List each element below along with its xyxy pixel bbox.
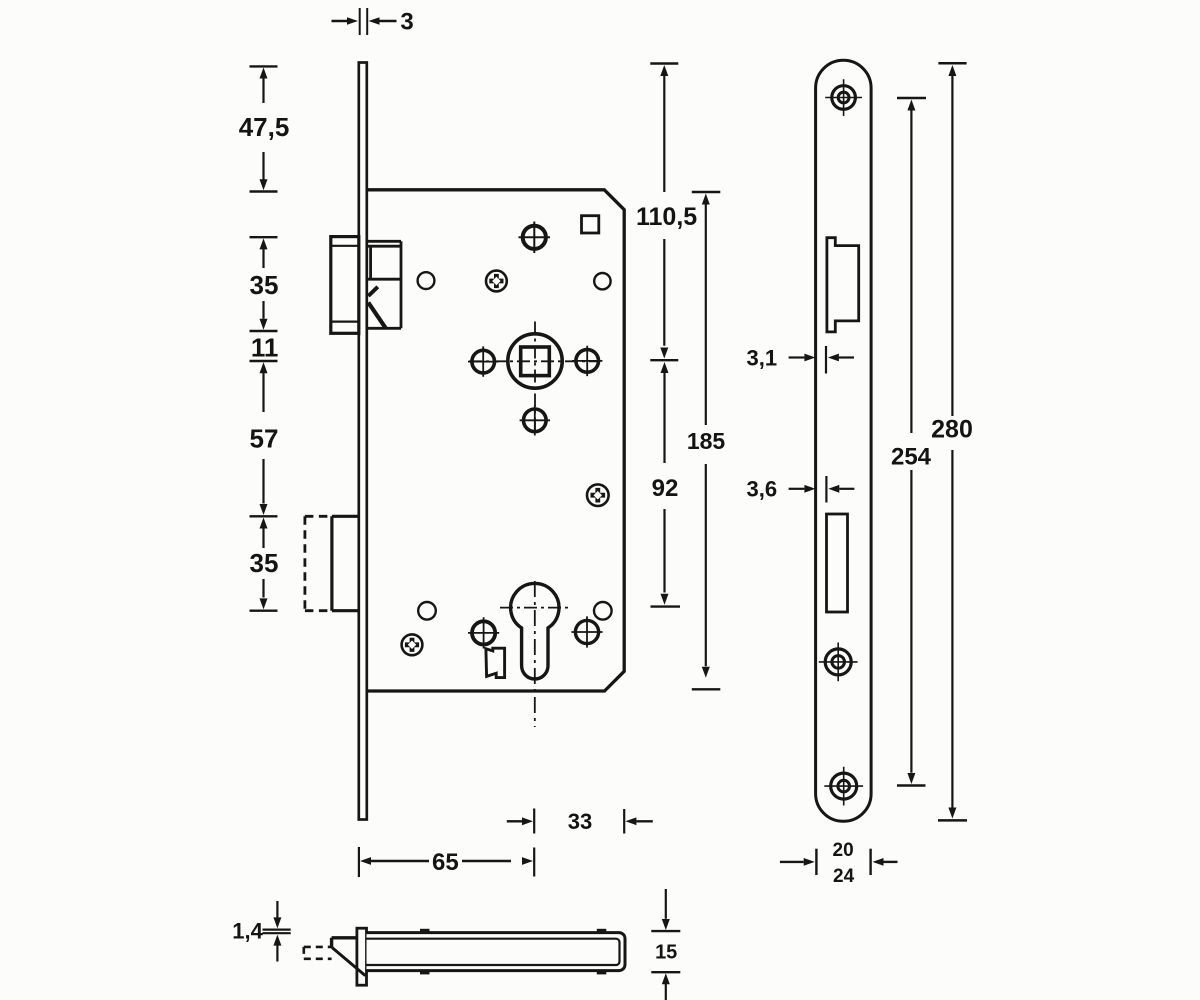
hole lower left [418,602,436,620]
svg-text:3,6: 3,6 [747,477,778,502]
square cutout top right [582,216,599,233]
svg-text:280: 280 [931,415,973,443]
dim 3 extension ticks [360,8,368,35]
deadbolt cutout on plate [827,514,848,612]
dim 47,5 [239,66,290,191]
spindle square hole [521,347,550,376]
euro cylinder profile [511,583,559,679]
top screw hole [519,222,551,254]
screw hole left of cylinder [468,617,499,648]
dim 65 [359,847,533,877]
svg-text:35: 35 [250,548,279,578]
latch housing in case [367,241,401,328]
dim 20/24 [780,840,898,887]
screw hole right of cylinder [571,616,602,647]
cylinder centerline vertical [534,581,536,727]
spindle centerline horizontal [469,360,599,362]
dim 3 left arrow [332,17,359,25]
phillips screw upper left [486,271,507,292]
spindle centerline vertical [534,322,536,434]
svg-text:3: 3 [400,9,413,36]
latch bevel diagonal (bottom view) [332,948,365,976]
screw hole right of spindle [572,346,602,376]
dim 3,1 [747,345,854,373]
case inner wall (bottom view) [367,939,620,965]
dim 35 upper [250,237,279,331]
dim 15 [651,889,680,1000]
plate middle screw [819,643,858,682]
lever flag below cylinder [486,648,505,677]
screw hole left of spindle [468,346,498,376]
svg-text:65: 65 [432,849,459,876]
hole lower right [594,602,612,620]
hole upper right [594,273,610,289]
phillips screw mid right [587,484,609,506]
svg-text:11: 11 [251,333,279,363]
svg-text:254: 254 [891,443,932,470]
latch cutout on plate [827,238,859,332]
plate top screw [825,79,862,116]
faceplate (bottom view) [357,928,367,985]
svg-text:1,4: 1,4 [232,919,263,944]
svg-text:3,1: 3,1 [747,345,778,370]
faceplate side view [359,63,367,820]
latch bolt head (bottom view) [332,938,358,948]
dim 110,5 [636,64,697,361]
phillips screw bottom left [402,634,423,655]
svg-text:110,5: 110,5 [636,203,697,231]
deadbolt dashed thrown position [305,516,332,610]
dim 3 right arrow [369,17,397,25]
hole left of latch [418,272,435,289]
svg-text:47,5: 47,5 [239,112,290,142]
svg-text:185: 185 [687,428,726,454]
dim 92 [651,362,681,607]
svg-text:33: 33 [568,809,592,834]
deadbolt solid outline [332,516,359,610]
svg-text:15: 15 [655,942,677,964]
dim 35 lower [250,518,279,611]
svg-text:20: 20 [833,840,854,861]
dim 33 [507,809,653,877]
cylinder centerline horizontal [500,607,571,609]
plate bottom screw [824,767,863,806]
lock case (bottom view) [367,933,626,971]
rivet bumps (bottom view) [420,929,606,975]
dim 3,6 [747,476,855,503]
svg-text:57: 57 [250,423,279,453]
svg-text:24: 24 [833,866,855,887]
spindle follower circle [508,334,562,388]
dim 185 [687,192,726,689]
dim 57 [250,362,279,516]
dim 280 [931,63,973,820]
svg-text:92: 92 [652,475,679,502]
svg-text:35: 35 [250,270,279,300]
dim 1,4 [232,901,290,962]
latch bolt head [331,237,359,334]
dim 254 [891,98,932,786]
lock case outline [367,190,624,691]
screw hole below spindle [520,405,550,435]
striking plate front view [816,60,872,821]
latch bolt dashed (bottom view) [304,947,332,959]
dim 11 [250,333,279,363]
